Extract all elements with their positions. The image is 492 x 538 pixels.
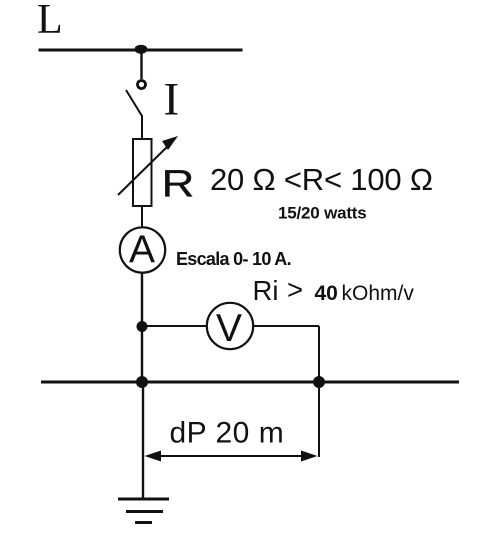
svg-text:kOhm/v: kOhm/v (342, 282, 415, 305)
svg-text:A: A (129, 229, 155, 272)
wire: node to voltmeter (142, 325, 207, 327)
voltmeter V (207, 303, 253, 349)
wire: from top bus down to switch (140, 50, 142, 79)
ammeter A (120, 227, 165, 272)
resistor R variable arrow (118, 144, 170, 195)
ground (118, 498, 169, 501)
svg-text:V: V (216, 307, 242, 350)
svg-text:dP 20 m: dP 20 m (170, 417, 285, 450)
wire: bottom horizontal bus (41, 381, 459, 384)
svg-text:15/20 watts: 15/20 watts (278, 204, 367, 223)
wire: top horizontal bus (39, 49, 243, 52)
junction dot right on bottom bus (313, 376, 325, 388)
svg-text:>: > (287, 274, 303, 305)
switch I: terminal circle (138, 81, 146, 89)
switch I: blade (126, 90, 142, 116)
wire: resistor to ammeter (141, 206, 143, 228)
wire: ammeter down to bottom bus (141, 273, 143, 383)
wire: voltmeter to right drop (253, 325, 319, 327)
wire: bottom bus to ground (142, 382, 144, 499)
svg-text:R: R (162, 162, 195, 205)
wire: right dot down to arrow level (318, 382, 320, 457)
svg-text:L: L (37, 0, 63, 43)
dimension arrow dP 20 m (148, 455, 314, 457)
junction dot on top bus (135, 45, 148, 54)
svg-text:I: I (164, 74, 180, 126)
wire: switch to resistor (141, 115, 143, 140)
junction dot left on bottom bus (136, 376, 148, 388)
junction node to voltmeter (137, 321, 148, 332)
resistor R body (133, 139, 152, 206)
svg-text:Escala 0- 10 A.: Escala 0- 10 A. (176, 249, 291, 269)
wire: right vertical drop to bottom bus (318, 326, 320, 383)
svg-text:40: 40 (315, 282, 338, 305)
svg-text:20 Ω <R< 100 Ω: 20 Ω <R< 100 Ω (210, 162, 433, 197)
svg-text:Ri: Ri (253, 275, 279, 306)
